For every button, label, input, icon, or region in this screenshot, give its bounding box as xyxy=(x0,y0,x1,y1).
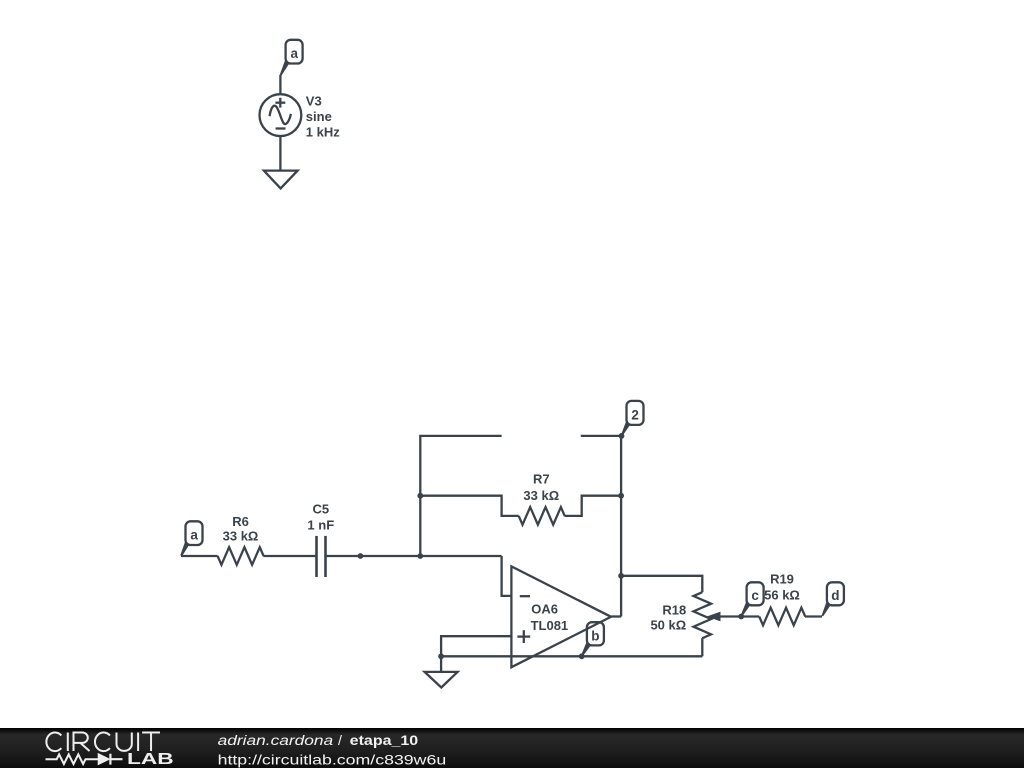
svg-text:adrian.cardona: adrian.cardona xyxy=(218,733,334,749)
junction (flag b tap) xyxy=(579,653,585,659)
op-amp OA6 xyxy=(511,566,611,667)
wire: flag a to V3 top xyxy=(279,75,281,95)
wire: R7 right lead xyxy=(565,496,621,516)
wire: R6 to C5 xyxy=(263,555,316,557)
svg-text:56 kΩ: 56 kΩ xyxy=(764,587,800,602)
node flag 2 xyxy=(621,401,644,436)
potentiometer R18 xyxy=(694,592,712,638)
node flag d xyxy=(822,582,844,616)
R7 labels xyxy=(523,472,559,503)
wire: output vertical xyxy=(620,436,622,617)
svg-text:d: d xyxy=(831,588,839,603)
wire: bottom return wire xyxy=(441,655,702,657)
wire: R18 bottom lead xyxy=(701,638,703,656)
svg-text:C5: C5 xyxy=(312,502,329,517)
svg-text:R19: R19 xyxy=(770,571,794,586)
wire: drop to inverting input xyxy=(502,556,512,596)
wire: input node up and over (top-left L) xyxy=(420,436,501,556)
svg-text:33 kΩ: 33 kΩ xyxy=(523,488,559,503)
wire: V3 to ground xyxy=(279,136,281,171)
resistor R7 xyxy=(519,507,565,525)
svg-text:a: a xyxy=(290,46,298,61)
svg-text:R18: R18 xyxy=(662,603,686,618)
junction (node 2 top) xyxy=(619,433,625,439)
svg-text:a: a xyxy=(190,528,198,543)
CircuitLab logo: CIRCUIT (drawn letters) xyxy=(46,733,160,752)
capacitor C5 xyxy=(317,536,326,577)
svg-text:/: / xyxy=(338,733,342,749)
svg-text:LAB: LAB xyxy=(127,751,174,768)
svg-text:TL081: TL081 xyxy=(531,618,569,633)
svg-text:sine: sine xyxy=(306,109,332,124)
svg-text:http://circuitlab.com/c839w6u: http://circuitlab.com/c839w6u xyxy=(218,752,447,768)
R18 labels xyxy=(650,603,686,633)
wire: R7 left lead xyxy=(420,496,518,516)
svg-text:R6: R6 xyxy=(232,514,249,529)
wire: ground stem xyxy=(440,656,442,672)
wire: R19 right lead xyxy=(805,615,822,617)
svg-text:etapa_10: etapa_10 xyxy=(350,733,419,749)
junction (output to R18 top) xyxy=(618,573,624,579)
node flag c xyxy=(741,582,764,616)
ground (op-amp + input) xyxy=(425,672,458,688)
svg-text:V3: V3 xyxy=(306,93,322,108)
svg-text:50 kΩ: 50 kΩ xyxy=(650,618,686,633)
ground (below V3) xyxy=(264,171,298,189)
V3 value labels xyxy=(306,93,340,139)
svg-text:1 kHz: 1 kHz xyxy=(306,124,340,139)
wire: flag a to R6 xyxy=(181,555,218,557)
svg-text:b: b xyxy=(591,628,599,643)
junction (R7 right / output) xyxy=(618,493,624,499)
svg-text:R7: R7 xyxy=(533,472,550,487)
OA6 labels xyxy=(531,601,569,632)
junction (wiper node c) xyxy=(738,614,744,620)
svg-text:33 kΩ: 33 kΩ xyxy=(223,529,259,544)
svg-text:c: c xyxy=(751,588,759,603)
CircuitLab logo: resistor-diode symbol xyxy=(46,754,99,764)
R6 labels xyxy=(223,514,259,544)
wire: top segment to node 2 xyxy=(581,435,621,437)
node flag b xyxy=(581,622,604,656)
R19 labels xyxy=(764,571,800,602)
node flag a (left input) xyxy=(180,521,202,556)
junction (R7 left branch) xyxy=(417,493,423,499)
resistor R6 xyxy=(218,547,264,565)
svg-text:OA6: OA6 xyxy=(531,601,558,616)
wire: output to R18 top xyxy=(621,576,702,592)
C5 labels xyxy=(307,502,334,533)
svg-text:1 nF: 1 nF xyxy=(307,517,334,532)
wire: C5 to inverting node xyxy=(326,555,502,557)
wire: wiper node to R19 xyxy=(741,615,759,617)
node flag a (top, above V3) xyxy=(280,40,303,76)
wire: op-amp output lead xyxy=(611,615,621,617)
footer bar xyxy=(0,728,1024,768)
junction (vertical branch on input wire) xyxy=(417,553,423,559)
junction (C5 output) xyxy=(358,553,364,559)
svg-text:2: 2 xyxy=(631,407,639,422)
voltage source V3 xyxy=(260,94,302,136)
junction (non-inverting / ground / bottom wire) xyxy=(438,653,444,659)
resistor R19 xyxy=(759,608,805,626)
wire: non-inverting input xyxy=(441,636,511,656)
R18 wiper arrow xyxy=(707,612,741,622)
